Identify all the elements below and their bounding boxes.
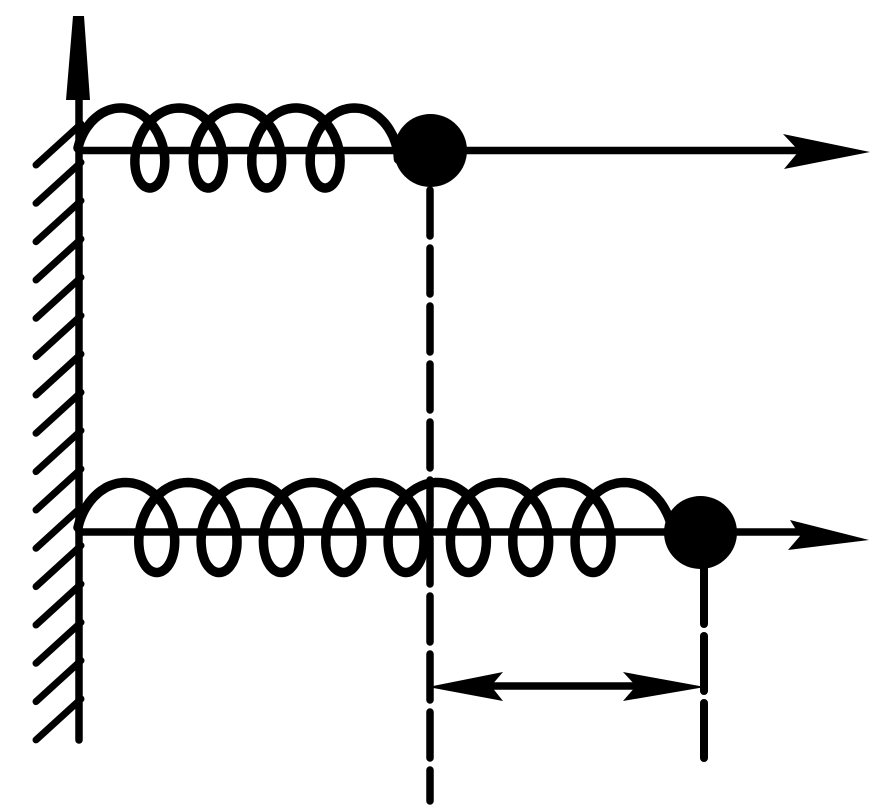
top axis line xyxy=(79,147,805,155)
spring k2 (bottom, stretched) xyxy=(78,483,672,573)
bottom axis arrowhead xyxy=(788,520,869,550)
wall xyxy=(75,96,83,740)
mass m (top) xyxy=(394,114,467,187)
wall hatching xyxy=(36,124,81,740)
right dimension arrowhead xyxy=(623,672,705,701)
up arrow on wall axis xyxy=(66,16,90,100)
dashed reference line from bottom mass xyxy=(700,569,708,759)
dashed reference line from top mass xyxy=(426,190,434,801)
bottom axis line xyxy=(79,528,805,536)
mass m (bottom, displaced) xyxy=(664,496,737,569)
top axis arrowhead xyxy=(783,134,870,169)
spring k1 (top, natural length) xyxy=(78,108,399,188)
displacement dimension line xyxy=(470,682,660,690)
left dimension arrowhead xyxy=(428,672,503,701)
